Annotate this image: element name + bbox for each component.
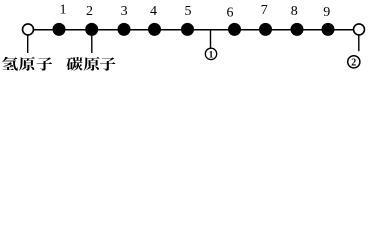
carbon atom 1: [53, 23, 66, 36]
carbon atom 7: [259, 23, 272, 36]
carbon atom 9: [322, 23, 335, 36]
svg-text:9: 9: [323, 5, 330, 20]
svg-text:8: 8: [291, 4, 298, 19]
svg-text:3: 3: [121, 4, 128, 19]
carbon atom 8: [291, 23, 304, 36]
label: carbon atom (Chinese): [66, 57, 115, 71]
carbon atom 2: [85, 23, 98, 36]
wire: drop from left hydrogen atom to label: [27, 36, 29, 54]
wire: main horizontal chain: [28, 29, 359, 31]
circled number 2 (site label): [348, 56, 360, 69]
hydrogen atom: left open circle: [23, 24, 34, 35]
svg-text:1: 1: [60, 3, 67, 18]
carbon atom 4: [148, 23, 161, 36]
svg-text:2: 2: [351, 58, 356, 69]
svg-text:5: 5: [185, 4, 192, 19]
hydrogen atom: right open circle: [354, 24, 365, 35]
svg-text:7: 7: [261, 3, 268, 18]
circled number 1 (site label): [205, 48, 216, 61]
wire: drop from chain to circled 1: [210, 30, 212, 48]
carbon atom 3: [118, 23, 131, 36]
wire: drop from carbon atom 2 to label: [91, 36, 93, 54]
carbon atom 6: [228, 23, 241, 36]
svg-text:4: 4: [150, 4, 157, 19]
svg-text:6: 6: [227, 5, 234, 20]
wire: drop from right hydrogen atom to circled 2: [358, 35, 360, 51]
svg-text:1: 1: [209, 51, 214, 61]
carbon atom 5: [181, 23, 194, 36]
label: hydrogen atom (Chinese): [2, 57, 52, 71]
svg-text:2: 2: [86, 4, 93, 19]
